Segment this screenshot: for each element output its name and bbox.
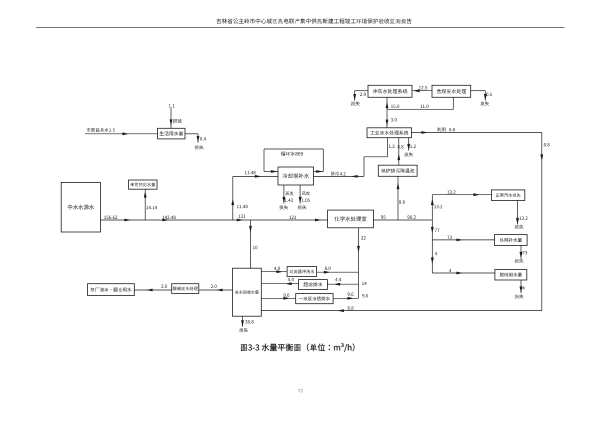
arrow 4.4 right — [334, 283, 341, 286]
arrow on main line after 131 — [237, 219, 244, 222]
arrow into 脱硫用水量 — [456, 272, 463, 275]
arrow 9.6 right — [347, 297, 354, 300]
wire to 热网补水量 — [432, 239, 494, 241]
label 8.8 riser — [399, 200, 405, 203]
label 2.9 — [360, 93, 366, 96]
arrow 2.0 right segment — [216, 289, 223, 292]
page number — [298, 389, 303, 392]
wire 11.0 riser from 含煤废水处理 — [452, 97, 454, 109]
box 热网补水量 — [495, 235, 528, 246]
arrow down into 生活用水量 top — [170, 119, 173, 126]
label 9.6 column — [362, 294, 368, 297]
box 正常汽水损失 — [492, 190, 525, 201]
wire 生活用水量 loss down — [197, 134, 199, 143]
label 排污 — [331, 172, 339, 176]
label 73 under — [523, 251, 528, 254]
wire 1.2 loss drop — [408, 138, 410, 151]
arrow down 77 — [431, 227, 434, 234]
wire 4.0 into 过滤器冲洗水 — [261, 271, 287, 273]
box 锅炉排污降温池 — [378, 165, 417, 176]
arrow up 15.0 into 冲灰水处理系统 — [386, 102, 389, 109]
wire 冲灰 loss down — [354, 91, 356, 101]
wire to 正常汽水损失 — [432, 194, 491, 196]
arrow into 未可预见水量 — [144, 191, 147, 198]
wire loop into box — [264, 171, 278, 173]
label 131 — [239, 215, 246, 218]
arrow 冲灰 loss — [353, 94, 356, 101]
wire junction horizontal 11.0 — [387, 108, 453, 110]
wire main line right of 化学水处理室 — [374, 219, 433, 221]
label 3.0 — [391, 118, 397, 121]
header title — [216, 18, 411, 23]
label 1.43 — [285, 199, 293, 202]
wire 9.6 from 废水回收水量 — [261, 297, 295, 299]
arrow down 4 — [431, 257, 434, 264]
label 8.0 — [325, 267, 331, 270]
header rule — [36, 27, 565, 29]
label 9.6 left — [283, 293, 289, 296]
arrow 12.5 into 冲灰水处理系统 — [413, 89, 420, 92]
box 废水回收水量 — [233, 268, 262, 316]
arrow 热网补水量 loss — [520, 252, 523, 259]
wire 正常汽水损失 loss — [517, 201, 519, 225]
label 10 — [253, 246, 257, 249]
box 一级反渗透排水 — [296, 294, 333, 304]
box 酸碱废水处理 — [172, 284, 199, 294]
wire 11.48 riser — [232, 176, 234, 220]
arrow 8.0 — [324, 271, 331, 274]
label 损失 under 脱硫用水量 — [515, 294, 524, 298]
label 损失 under 热网补水量 — [515, 259, 524, 263]
arrow on main line after 156.62 — [124, 219, 131, 222]
arrow up 13.2 — [431, 199, 434, 206]
wire 2.0 into 酸碱废水处理 — [199, 289, 233, 291]
arrow into 正常汽水损失 — [473, 193, 480, 196]
label 1.05 — [302, 199, 310, 202]
wire 含煤 loss right — [471, 90, 486, 92]
label 2.0 right — [211, 285, 217, 288]
label 损失 of 冲灰水处理系统 — [351, 101, 360, 105]
label 市政自来水1.5 — [87, 128, 115, 132]
arrow 4.4 left — [285, 282, 292, 285]
box 含煤废水处理 — [432, 85, 471, 97]
wire 4.4 into 超滤排水 — [327, 283, 358, 285]
label 1.2 left — [389, 145, 395, 148]
label 循环水869 — [281, 151, 303, 156]
wire 1.2 step vertical — [363, 157, 365, 177]
label 95 — [381, 215, 386, 218]
box 中水水源水 — [61, 182, 100, 232]
box 灰厂油库、翻仓用水 — [88, 284, 135, 296]
label 4.4 left — [288, 278, 294, 281]
arrow down 3.0 into 工业废水处理系统 — [386, 120, 389, 127]
label 15.0 — [391, 105, 399, 108]
arrow 脱硫用水量 loss — [520, 286, 523, 293]
wire to 脱硫用水量 — [432, 272, 495, 274]
label 0.5 — [486, 93, 492, 96]
label 73 branch — [447, 236, 452, 239]
arrow up into 锅炉排污降温池 — [397, 183, 400, 190]
arrow down 8.8 south — [540, 154, 543, 161]
wire 15.0 riser — [386, 97, 388, 109]
label 14 — [362, 282, 366, 285]
wire loop left drop — [263, 149, 265, 172]
arrow loop into 冷却塔补水 — [271, 170, 278, 173]
wire 38.8 loss — [242, 316, 244, 327]
label 13.2 branch — [447, 190, 455, 193]
arrow 正常汽水损失 loss — [516, 218, 519, 225]
wire 风吹 loss — [299, 185, 301, 204]
wire 4.4 into 废水回收水量 — [261, 283, 298, 285]
label 损失 under 工业废水处理系统 — [404, 152, 413, 156]
wire main line left — [100, 219, 327, 221]
arrow on main line after 121 — [315, 219, 322, 222]
wire 10 down to 废水回收水量 — [250, 220, 252, 268]
wire 8.8 riser from main line — [397, 176, 399, 220]
arrow 利用 8.8 — [421, 131, 428, 134]
wire distribution column lower — [431, 240, 433, 273]
wire 8.8 from 锅炉排污降温池 up — [398, 138, 400, 166]
label 156.62 — [104, 216, 117, 219]
label 蒸发 — [285, 191, 293, 195]
wire loop out of box — [314, 171, 324, 173]
label 损失 of 含煤废水处理 — [480, 101, 489, 105]
arrow 2.0 left segment — [146, 289, 153, 292]
arrow up 11.48 — [231, 199, 234, 206]
label 14.14 — [146, 206, 157, 209]
wire 排放 above 生活用水量 — [170, 108, 172, 128]
label 风吹 — [302, 191, 310, 195]
wire 8.8 west return — [261, 310, 542, 312]
label 损失 under 风吹 — [298, 205, 307, 209]
wire 排污 horizontal — [314, 175, 365, 177]
wire loop right rise — [322, 149, 324, 172]
wire 1.2 step horizontal — [364, 156, 388, 158]
wire loop top — [264, 148, 323, 150]
label 4.4 right — [335, 278, 341, 281]
label 8.8 under box — [398, 145, 404, 148]
arrow loop out of 冷却塔补水 — [316, 170, 323, 173]
label 损失 under 废水回收水量 — [239, 328, 248, 332]
box 过滤器冲洗水 — [287, 267, 317, 277]
wire distribution column 77 — [431, 220, 433, 240]
arrow 38.8 loss — [241, 320, 244, 327]
wire 8.8 south — [541, 133, 543, 311]
arrow 1.2 loss — [407, 144, 410, 151]
wire 蒸发 loss — [283, 185, 285, 204]
arrow 4.0 — [276, 270, 283, 273]
wire collecting column — [358, 272, 360, 298]
label 4.0 — [274, 267, 280, 270]
figure caption — [241, 343, 355, 352]
arrow 9.6 left — [283, 297, 290, 300]
label 损失 under 正常汽水损失 — [515, 225, 524, 229]
box 超滤排水 — [299, 280, 328, 290]
wire 9.6 out of 一级反渗透排水 — [333, 297, 358, 299]
arrow 风吹 loss — [299, 197, 302, 204]
wire 2.0 into 灰厂油库 — [134, 289, 171, 291]
label 22 — [361, 236, 366, 239]
arrow 8.8 into 废水回收水量 — [337, 309, 344, 312]
arrow 排污 return left — [351, 175, 358, 178]
arrow into 冷却塔补水 — [255, 175, 262, 178]
label 2.0 left — [161, 285, 167, 288]
arrow on main line after 142.48 — [162, 219, 169, 222]
arrow 生活用水量 loss — [197, 136, 200, 143]
wire 市政自来水 to 生活用水量 — [85, 133, 158, 135]
wire 冲灰 loss left — [355, 90, 368, 92]
label 损失 under 蒸发 — [279, 205, 288, 209]
box 生活用水量 — [158, 128, 185, 139]
box 冲灰水处理系统 — [368, 85, 412, 97]
label 13.2 column — [434, 205, 442, 208]
arrow down 22 — [357, 246, 360, 253]
wire 3.0 drop — [386, 109, 388, 128]
wire 脱硫用水量 loss — [520, 280, 522, 293]
arrow into 生活用水量 — [122, 132, 129, 135]
wire 11.48 into 冷却塔补水 — [233, 175, 278, 177]
wire 8.0 out of 过滤器冲洗水 — [317, 271, 359, 273]
arrow up 8.8 into 工业废水处理系统 — [397, 154, 400, 161]
label 排放 — [173, 119, 182, 123]
label 4.2 — [340, 172, 346, 175]
label 0.4 — [200, 137, 206, 140]
arrow 含煤 loss — [484, 94, 487, 101]
wire 利用 8.8 east — [412, 132, 542, 134]
wire 生活用水量 loss right — [185, 133, 198, 135]
label 11.48 vertical — [237, 205, 248, 208]
wire distribution column upper — [431, 195, 433, 220]
label 1.1 — [169, 104, 175, 107]
label 4 under — [522, 287, 524, 290]
arrow into 热网补水量 — [456, 239, 463, 242]
arrow down 10 — [249, 226, 252, 233]
box 脱硫用水量 — [495, 270, 527, 281]
box 冷却塔补水 — [278, 167, 314, 185]
label 38.8 — [245, 320, 253, 323]
label 121 — [289, 216, 296, 219]
arrow 蒸发 loss — [282, 197, 285, 204]
wire 22 down from 化学水处理室 — [358, 228, 360, 272]
wire 含煤 loss down — [484, 91, 486, 101]
box 工业废水处理系统 — [367, 128, 412, 138]
label 142.48 — [163, 216, 176, 219]
box 未可预见水量 — [129, 180, 158, 189]
label 13.2 under — [519, 217, 527, 220]
label 11.48 horizontal — [245, 171, 256, 174]
label 9.6 right — [348, 292, 354, 295]
label 8.8 on return — [348, 306, 354, 309]
label 利用 — [437, 127, 445, 131]
wire 1.2 from 工业废水处理系统 — [387, 138, 389, 157]
wire 热网补水量 loss — [520, 246, 522, 259]
box 化学水处理室 — [328, 210, 374, 228]
label 77 — [435, 229, 440, 232]
label 11.0 — [420, 105, 428, 108]
wire 12.5 — [412, 90, 432, 92]
label 4 column — [435, 252, 437, 255]
label 90.2 — [407, 215, 415, 218]
wire up to 未可预见水量 — [144, 189, 146, 220]
label 1.2 right — [410, 145, 416, 148]
label 8.8 after 利用 — [449, 128, 455, 131]
label 12.5 — [419, 86, 427, 89]
label 4 branch — [449, 269, 451, 272]
label 损失 of 生活用水量 — [195, 145, 204, 149]
label 8.8 on south wire — [544, 143, 550, 146]
